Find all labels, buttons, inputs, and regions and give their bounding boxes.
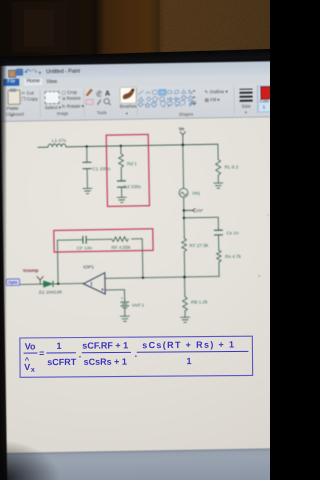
svg-text:Vo: Vo bbox=[25, 341, 36, 351]
wire main top rail bbox=[38, 144, 218, 147]
wire C1 lead bbox=[86, 146, 89, 188]
ground Vref bbox=[120, 316, 129, 321]
tab row bbox=[0, 74, 274, 89]
undo bbox=[24, 67, 31, 76]
opamp input wire lower + Vref lead bbox=[105, 290, 125, 317]
brushes bbox=[119, 86, 136, 103]
resistor RF 4.55k bbox=[112, 237, 129, 242]
feedback right riser bbox=[141, 239, 144, 278]
junction tap to Cs branch bbox=[183, 217, 185, 219]
wire RL branch bbox=[217, 144, 220, 183]
resistor RB 1.2k bbox=[183, 297, 188, 311]
feedback top wire bbox=[57, 239, 142, 240]
fraction bar 2 bbox=[82, 351, 131, 353]
redo bbox=[31, 67, 38, 76]
red highlight box CF/RF bbox=[54, 229, 153, 252]
probe line Vx bbox=[184, 209, 192, 211]
save icon bbox=[16, 69, 23, 76]
dropdown bbox=[39, 70, 42, 76]
screen bbox=[0, 61, 281, 480]
svg-text:^: ^ bbox=[25, 356, 30, 365]
svg-text:sCs(RT + Rs) + 1: sCs(RT + Rs) + 1 bbox=[142, 339, 235, 350]
svg-text:.: . bbox=[135, 349, 138, 359]
node Vo junction bbox=[181, 143, 184, 146]
wall stucco texture bbox=[160, 0, 270, 68]
svg-text:Vo: Vo bbox=[179, 126, 185, 131]
svg-text:x: x bbox=[31, 367, 35, 374]
svg-text:Cd 330u: Cd 330u bbox=[123, 184, 141, 189]
left dark edge bbox=[0, 60, 7, 480]
resistor RT 27.5k bbox=[182, 238, 187, 251]
clipboard group bbox=[7, 90, 20, 105]
svg-text:RF 4.55k: RF 4.55k bbox=[111, 245, 131, 250]
junction C1 top bbox=[85, 145, 87, 147]
color1 bbox=[257, 85, 276, 112]
svg-text:sCsRs + 1: sCsRs + 1 bbox=[84, 357, 127, 367]
node Vx junction bbox=[183, 209, 185, 211]
junction feedback to output rail bbox=[57, 283, 59, 285]
svg-text:1: 1 bbox=[56, 341, 61, 351]
formula box bbox=[18, 334, 258, 382]
svg-text:RB 1.2k: RB 1.2k bbox=[191, 299, 208, 304]
ground RL bbox=[214, 183, 223, 188]
size group bbox=[239, 89, 252, 90]
capacitor C1 bbox=[83, 162, 91, 169]
resistor Rs 4.7k bbox=[217, 250, 222, 262]
monitor bezel bbox=[0, 48, 276, 70]
op-amp U IOP1 bbox=[83, 273, 105, 295]
wire Vinj vertical bbox=[183, 145, 185, 238]
svg-text:IOP1: IOP1 bbox=[83, 264, 94, 269]
group separators bbox=[39, 89, 40, 117]
junction RB top bbox=[183, 276, 186, 279]
svg-text:Vcomp: Vcomp bbox=[23, 268, 39, 273]
feedback left riser bbox=[56, 240, 59, 284]
resistor Rd 1 bbox=[119, 154, 124, 168]
wall background bbox=[0, 0, 270, 72]
title bar bbox=[0, 61, 274, 79]
svg-text:sCF.RF + 1: sCF.RF + 1 bbox=[82, 340, 128, 350]
svg-text:L1 47u: L1 47u bbox=[52, 138, 67, 143]
resistor RL 8.2 bbox=[216, 159, 221, 175]
ground Cd bbox=[117, 197, 126, 202]
svg-text:Rd 1: Rd 1 bbox=[127, 161, 137, 166]
svg-text:Rs 4.7k: Rs 4.7k bbox=[225, 254, 242, 259]
inductor L1 bbox=[48, 144, 66, 147]
fraction bar 1 bbox=[46, 352, 76, 354]
tools group bbox=[84, 87, 136, 114]
image group bbox=[44, 91, 59, 104]
fraction bar lhs bbox=[24, 352, 38, 354]
wire RB lead bbox=[183, 277, 186, 317]
svg-text:Opto: Opto bbox=[8, 280, 18, 285]
wire Rs bottom corner bbox=[218, 262, 220, 276]
svg-text:Vref 1: Vref 1 bbox=[132, 303, 145, 308]
source Vinj bbox=[179, 188, 188, 197]
source Vref battery bbox=[121, 302, 129, 308]
ribbon body bbox=[0, 84, 275, 122]
schematic svg bbox=[0, 61, 281, 480]
capacitor Cs bbox=[214, 230, 222, 235]
capacitor CF bbox=[83, 236, 86, 243]
capacitor Cd bbox=[117, 181, 125, 187]
junction Rd top bbox=[120, 145, 122, 147]
svg-text:+: + bbox=[121, 296, 124, 301]
svg-text:.: . bbox=[79, 349, 82, 359]
red highlight box Rd/Cd bbox=[106, 134, 149, 206]
node Vo marker bbox=[180, 132, 186, 145]
canvas bbox=[1, 117, 281, 453]
title text bbox=[46, 69, 80, 76]
faint frame in dark area bbox=[12, 2, 67, 52]
svg-text:sCFRT: sCFRT bbox=[47, 357, 77, 367]
svg-text:1: 1 bbox=[186, 356, 191, 366]
svg-text:C1 100u: C1 100u bbox=[92, 166, 110, 171]
wire RT to node bbox=[183, 252, 185, 277]
svg-text:RT 27.5k: RT 27.5k bbox=[189, 243, 209, 248]
shapes group grid bbox=[137, 88, 195, 108]
wire Rd lead bbox=[120, 146, 123, 197]
label box Opto bbox=[6, 279, 19, 286]
canvas speck bbox=[259, 275, 260, 276]
svg-text:=: = bbox=[39, 348, 44, 358]
wire output rail (comp) bbox=[20, 283, 84, 284]
svg-text:Vinj: Vinj bbox=[192, 191, 200, 196]
bottom-left vignette bbox=[0, 430, 90, 480]
svg-text:RL 8.2: RL 8.2 bbox=[225, 164, 239, 169]
junction feedback to input rail bbox=[142, 277, 144, 279]
bottom gray band bbox=[7, 448, 282, 480]
wire opamp input rail bbox=[105, 276, 219, 278]
svg-text:Cs 1n: Cs 1n bbox=[226, 230, 239, 235]
ground RB bbox=[181, 317, 190, 322]
fraction bar 3 bbox=[137, 350, 249, 353]
paint icon bbox=[8, 69, 16, 78]
svg-text:D1 1N4148: D1 1N4148 bbox=[39, 289, 62, 294]
diode D1 bbox=[43, 281, 53, 287]
wire tap to Cs/Rs branch bbox=[184, 217, 219, 250]
svg-text:Vx*: Vx* bbox=[196, 208, 203, 213]
node Vcomp marker bbox=[37, 276, 43, 284]
svg-text:CF 14n: CF 14n bbox=[77, 246, 93, 251]
ground C1 bbox=[83, 188, 92, 193]
